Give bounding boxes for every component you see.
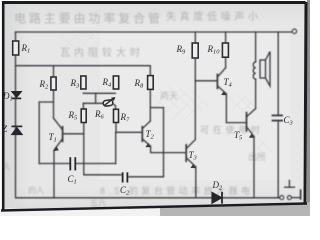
svg-text:五六: 五六 xyxy=(90,198,106,208)
svg-text:的人: 的人 xyxy=(28,185,44,195)
svg-text:出所: 出所 xyxy=(248,151,266,162)
svg-text:失真度低噪声小: 失真度低噪声小 xyxy=(166,10,258,23)
